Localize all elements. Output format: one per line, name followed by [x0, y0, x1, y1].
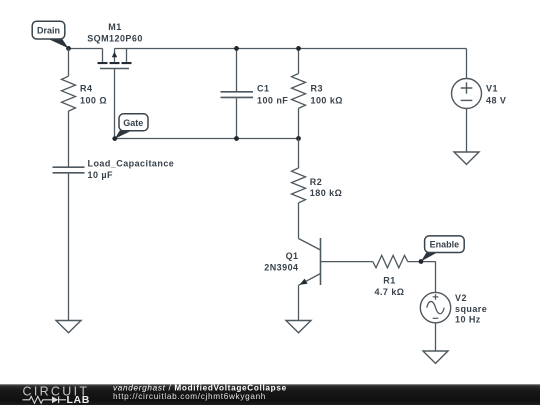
label Q1	[264, 251, 298, 273]
wire drain node to M1 source	[69, 48, 103, 50]
wire gate rail horizontal	[115, 138, 299, 140]
svg-text:Enable: Enable	[430, 240, 460, 250]
wire V1 drop	[466, 49, 468, 79]
node enable	[419, 259, 424, 264]
resistor R3	[292, 49, 306, 139]
resistor R4	[62, 49, 76, 167]
svg-text:SQM120P60: SQM120P60	[87, 34, 143, 44]
label Load_Capacitance	[88, 158, 175, 180]
ground V2	[423, 351, 448, 363]
capacitor C1	[221, 49, 254, 139]
flag Enable	[421, 236, 464, 262]
svg-text:R3: R3	[311, 84, 323, 94]
svg-text:4.7 kΩ: 4.7 kΩ	[375, 287, 405, 297]
svg-text:square: square	[455, 304, 487, 314]
svg-text:R2: R2	[310, 177, 322, 187]
svg-text:Load_Capacitance: Load_Capacitance	[88, 158, 175, 168]
wire V2 to ground	[435, 323, 437, 351]
svg-text:100 Ω: 100 Ω	[80, 95, 107, 105]
footer bar	[0, 384, 540, 405]
svg-text:Drain: Drain	[37, 25, 60, 35]
ground Q1	[286, 321, 311, 333]
svg-text:100 nF: 100 nF	[257, 96, 288, 106]
wire enable to V2	[435, 262, 437, 293]
svg-text:10 Hz: 10 Hz	[455, 314, 481, 324]
wire top rail M1 to V1	[115, 48, 467, 50]
source V2 (function generator)	[420, 292, 450, 322]
ground left	[56, 321, 81, 333]
svg-text:Q1: Q1	[286, 251, 299, 261]
svg-text:V1: V1	[486, 83, 498, 93]
resistor R2	[292, 139, 306, 239]
flag Gate	[115, 114, 148, 139]
svg-text:180 kΩ: 180 kΩ	[310, 188, 342, 198]
node R3 bottom	[296, 136, 301, 141]
svg-text:100 kΩ: 100 kΩ	[311, 96, 343, 106]
label M1	[87, 22, 143, 44]
svg-text:R1: R1	[383, 276, 395, 286]
resistor R1	[373, 255, 436, 267]
svg-text:Gate: Gate	[123, 118, 143, 128]
node gate	[112, 136, 117, 141]
transistor Q1 (2N3904 NPN, mirrored)	[299, 238, 321, 320]
svg-text:10 µF: 10 µF	[88, 170, 113, 180]
wire M1 gate down	[114, 69, 116, 139]
transistor M1 (PMOS SQM120P60)	[98, 49, 132, 69]
source V1	[452, 79, 482, 109]
label C1	[257, 84, 288, 106]
label R1	[375, 276, 405, 298]
label R3	[311, 84, 343, 106]
svg-text:2N3904: 2N3904	[264, 263, 298, 273]
node R3 top	[296, 46, 301, 51]
label V2	[455, 293, 487, 325]
svg-text:V2: V2	[455, 293, 467, 303]
node C1 bottom	[234, 136, 239, 141]
svg-text:R4: R4	[80, 84, 92, 94]
svg-text:http://circuitlab.com/cjhmt6wk: http://circuitlab.com/cjhmt6wkyganh	[113, 392, 266, 401]
svg-text:C1: C1	[257, 84, 269, 94]
svg-text:LAB: LAB	[67, 394, 90, 405]
wire V1 to ground	[466, 109, 468, 152]
label R2	[310, 177, 342, 198]
capacitor Load_Capacitance	[53, 167, 85, 320]
flag Drain	[32, 21, 68, 48]
wire Q1 base to R1	[321, 261, 373, 263]
logo circuitlab	[23, 385, 90, 405]
node drain	[66, 46, 71, 51]
ground V1	[454, 152, 479, 164]
label V1	[486, 83, 506, 105]
label R4	[80, 84, 107, 106]
footer text	[113, 383, 287, 401]
svg-text:48 V: 48 V	[486, 96, 506, 106]
node C1 top	[234, 46, 239, 51]
svg-text:M1: M1	[108, 22, 121, 32]
